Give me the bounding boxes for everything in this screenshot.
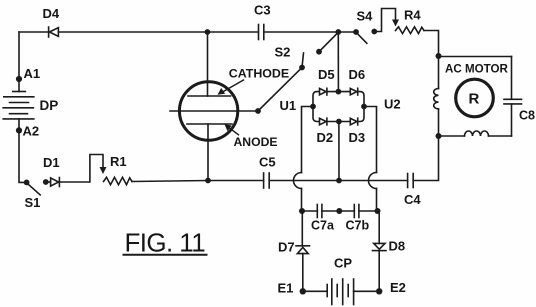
wire bridge left branch with hop	[294, 107, 314, 212]
diode D6	[349, 67, 366, 95]
rotor R of motor	[456, 79, 494, 117]
svg-text:R4: R4	[404, 8, 421, 23]
capacitor C8	[504, 99, 535, 122]
diode D3	[349, 118, 366, 145]
diode D5	[318, 67, 335, 95]
wiper arrowhead R4	[392, 20, 399, 27]
capacitor C4	[404, 174, 421, 208]
wire motor to C4	[413, 136, 438, 181]
svg-text:C7b: C7b	[346, 219, 370, 233]
svg-text:S1: S1	[25, 195, 41, 210]
node bridge bottom junction	[336, 178, 342, 184]
svg-text:D3: D3	[349, 130, 366, 145]
node A2	[16, 124, 39, 139]
wire bridge bottom lead	[338, 122, 340, 181]
wire anode junction to C5	[208, 180, 264, 182]
wire C7 left segment	[302, 210, 317, 212]
wire C7 left to D7	[301, 211, 303, 246]
wire top-left vertical	[18, 32, 20, 79]
wire top segment middle	[58, 31, 258, 33]
svg-text:C8: C8	[519, 109, 535, 123]
node bridge bottom-center	[336, 119, 342, 125]
node bridge top-center	[336, 89, 342, 95]
node C7 right	[375, 208, 381, 214]
svg-text:U2: U2	[384, 97, 401, 112]
svg-text:AC MOTOR: AC MOTOR	[445, 63, 509, 76]
wire bottom main left	[132, 181, 208, 182]
node C7 left	[299, 208, 305, 214]
svg-text:D2: D2	[317, 130, 334, 145]
svg-text:U1: U1	[280, 98, 297, 113]
node E2	[376, 280, 406, 295]
wire D1 to R1 wiper	[59, 155, 103, 183]
diode bridge frame	[313, 92, 364, 122]
node tube grid U1	[255, 98, 296, 114]
node motor bottom-left	[436, 133, 442, 139]
node junction bridge-top	[335, 29, 341, 35]
svg-text:S2: S2	[275, 45, 291, 60]
svg-text:C5: C5	[259, 155, 276, 170]
svg-text:C4: C4	[404, 192, 421, 207]
wire E1 to CP	[303, 290, 327, 292]
resistor R4	[396, 8, 425, 34]
switch S2	[258, 32, 338, 111]
node tube anode junction	[205, 178, 211, 184]
wire tube anode lead	[207, 124, 209, 181]
wire top segment left	[19, 31, 48, 33]
svg-text:FIG. 11: FIG. 11	[125, 228, 206, 258]
inductor motor aux winding (bottom edge)	[465, 131, 489, 136]
node motor top-left	[436, 53, 442, 59]
wire bottom main right	[269, 180, 407, 182]
diode D4	[43, 6, 60, 37]
diode D2	[317, 118, 334, 145]
wire top segment right of C3	[264, 31, 356, 33]
svg-text:R: R	[469, 91, 480, 108]
AC motor enclosure	[439, 57, 512, 137]
inductor motor main winding (left edge)	[434, 57, 439, 137]
wiper arrowhead R1	[100, 167, 107, 174]
svg-text:CP: CP	[334, 256, 352, 271]
capacitor C5	[259, 155, 276, 189]
wire C7 middle segment	[322, 210, 354, 212]
svg-text:E1: E1	[278, 281, 294, 296]
wire bridge top lead	[337, 32, 339, 92]
svg-text:D1: D1	[43, 155, 60, 170]
wire R4 to motor	[424, 31, 439, 57]
svg-text:S4: S4	[357, 9, 374, 24]
capacitor C3	[254, 3, 271, 40]
switch S4	[353, 9, 377, 44]
svg-text:CATHODE: CATHODE	[229, 67, 289, 81]
battery DP	[3, 79, 58, 130]
node bridge right U2	[361, 97, 401, 112]
capacitor C7b	[346, 205, 370, 233]
resistor R1	[104, 154, 133, 185]
svg-text:D8: D8	[389, 239, 406, 254]
node E1	[278, 281, 306, 296]
switch S1	[24, 179, 49, 210]
diode D1	[43, 155, 60, 187]
node bridge left	[310, 104, 316, 110]
node junction tube-top	[205, 29, 211, 35]
wire CP to E2	[354, 290, 380, 292]
wire A2 to S1	[19, 130, 24, 182]
svg-text:ANODE: ANODE	[234, 135, 278, 149]
svg-text:R1: R1	[110, 154, 127, 169]
wire E2 to D8	[378, 251, 380, 291]
svg-text:A1: A1	[24, 66, 41, 81]
svg-text:A2: A2	[23, 124, 40, 139]
wire D8 to C7 right	[378, 211, 380, 243]
label ANODE with pointer	[225, 124, 278, 149]
svg-text:C7a: C7a	[311, 219, 335, 233]
battery CP	[327, 256, 353, 305]
diode D7	[278, 240, 310, 255]
node A1	[16, 66, 40, 82]
svg-text:DP: DP	[40, 98, 59, 113]
wire D7 to E1	[302, 254, 304, 292]
wire bridge right branch with hop	[364, 107, 377, 212]
diode D8	[373, 239, 406, 254]
label FIG. 11	[124, 228, 207, 258]
svg-text:D7: D7	[278, 240, 295, 255]
svg-text:E2: E2	[390, 280, 406, 295]
label CATHODE with pointer	[218, 67, 290, 95]
node C7 center	[336, 208, 342, 214]
wire S4 to R4 wiper	[374, 9, 395, 32]
svg-text:D5: D5	[318, 67, 335, 82]
wire tube cathode lead	[207, 32, 209, 96]
capacitor C7a	[311, 205, 335, 233]
svg-text:C3: C3	[254, 3, 271, 18]
svg-text:D4: D4	[43, 6, 60, 21]
vacuum tube V	[170, 82, 258, 140]
wire C7 right segment	[359, 210, 378, 212]
svg-text:D6: D6	[349, 67, 366, 82]
